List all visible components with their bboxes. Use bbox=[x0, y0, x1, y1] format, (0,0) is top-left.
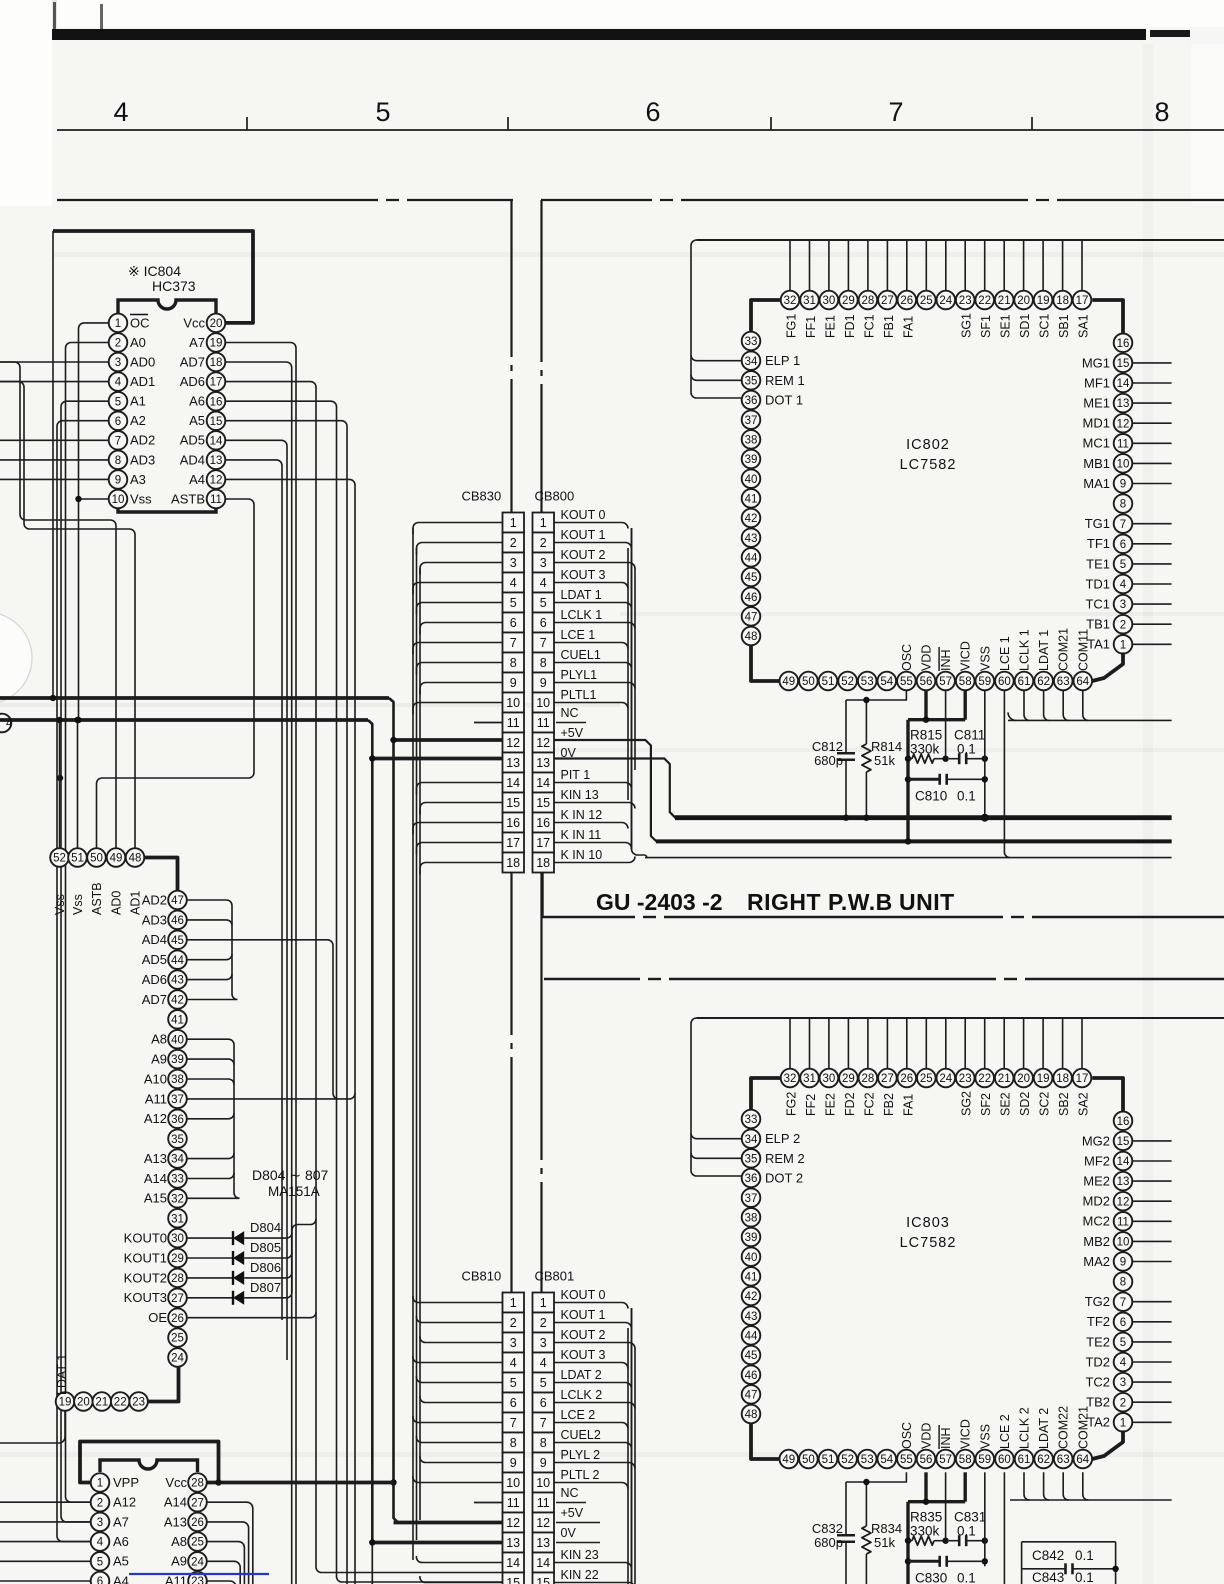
svg-text:ASTB: ASTB bbox=[171, 491, 205, 506]
svg-text:0.1: 0.1 bbox=[1075, 1548, 1094, 1563]
wire Vcc loop IC804 pin20 bbox=[53, 231, 253, 323]
svg-text:TF2: TF2 bbox=[1087, 1314, 1110, 1329]
svg-text:44: 44 bbox=[745, 553, 758, 565]
wire IC804 pin5 A1 down-left bbox=[61, 401, 109, 1522]
svg-text:K IN 10: K IN 10 bbox=[561, 848, 603, 862]
wire AD0 loop to CPU pin49 bbox=[0, 362, 116, 848]
svg-text:TD1: TD1 bbox=[1085, 576, 1110, 591]
svg-text:SF2: SF2 bbox=[979, 1093, 993, 1116]
svg-text:10: 10 bbox=[1117, 459, 1130, 471]
svg-text:14: 14 bbox=[506, 776, 520, 790]
svg-text:18: 18 bbox=[1056, 1073, 1069, 1085]
svg-text:A4: A4 bbox=[113, 1573, 129, 1584]
wire IC804 pin18 AD7 down bbox=[225, 362, 291, 1584]
connector CB830 bbox=[462, 489, 525, 873]
wire VSS bbox=[984, 690, 986, 817]
svg-text:9: 9 bbox=[540, 676, 547, 690]
svg-text:16: 16 bbox=[210, 396, 223, 408]
IC802 top pin wires to bus bbox=[790, 240, 1082, 291]
svg-text:60: 60 bbox=[998, 1454, 1011, 1466]
svg-text:AD2: AD2 bbox=[130, 433, 155, 448]
svg-text:15: 15 bbox=[1117, 358, 1130, 370]
svg-text:0.1: 0.1 bbox=[1075, 1570, 1094, 1584]
svg-text:4: 4 bbox=[6, 718, 13, 730]
svg-text:11: 11 bbox=[537, 1496, 550, 1510]
svg-text:56: 56 bbox=[920, 676, 933, 688]
svg-text:OE: OE bbox=[148, 1310, 167, 1325]
svg-text:44: 44 bbox=[745, 1331, 758, 1343]
CB801 right harness verticals to page bottom bbox=[628, 1308, 635, 1584]
wire IC804 pin1 OC to ground rail bbox=[79, 323, 109, 720]
svg-text:PLTL1: PLTL1 bbox=[561, 688, 597, 702]
wire IC804 pin14 AD5 down bbox=[225, 440, 287, 1360]
svg-text:R834: R834 bbox=[871, 1521, 902, 1536]
svg-text:12: 12 bbox=[536, 1516, 550, 1530]
svg-text:45: 45 bbox=[745, 1350, 758, 1362]
svg-text:4: 4 bbox=[510, 1356, 517, 1370]
svg-text:CB830: CB830 bbox=[462, 489, 502, 504]
svg-text:61: 61 bbox=[1018, 676, 1031, 688]
blue pen mark bbox=[129, 1573, 269, 1575]
svg-text:AD6: AD6 bbox=[142, 972, 167, 987]
svg-text:VDD: VDD bbox=[920, 1423, 934, 1449]
svg-text:KIN 23: KIN 23 bbox=[561, 1548, 599, 1562]
wire AD1 loop to CPU pin48 bbox=[0, 382, 135, 849]
svg-text:1: 1 bbox=[540, 516, 547, 530]
svg-text:Vcc: Vcc bbox=[183, 315, 205, 330]
ruler number 6 bbox=[645, 97, 660, 127]
svg-text:26: 26 bbox=[191, 1517, 204, 1529]
svg-text:50: 50 bbox=[802, 1454, 815, 1466]
svg-text:AD4: AD4 bbox=[142, 932, 167, 947]
svg-text:5: 5 bbox=[540, 1376, 547, 1390]
svg-text:7: 7 bbox=[510, 1416, 517, 1430]
svg-text:INH: INH bbox=[939, 649, 953, 671]
svg-text:PIT 1: PIT 1 bbox=[561, 768, 591, 782]
svg-text:KOUT 3: KOUT 3 bbox=[561, 568, 606, 582]
svg-text:28: 28 bbox=[862, 295, 875, 307]
svg-text:39: 39 bbox=[745, 1232, 758, 1244]
IC803 ELP REM DOT labels bbox=[765, 1131, 805, 1186]
svg-text:A7: A7 bbox=[189, 335, 205, 350]
svg-text:TF1: TF1 bbox=[1087, 536, 1110, 551]
svg-text:12: 12 bbox=[1117, 418, 1130, 430]
svg-text:12: 12 bbox=[1117, 1196, 1130, 1208]
svg-text:46: 46 bbox=[745, 1370, 758, 1382]
svg-text:9: 9 bbox=[1120, 479, 1126, 491]
IC803 right pins 16-1 bbox=[1082, 1112, 1172, 1432]
svg-text:0.1: 0.1 bbox=[957, 1570, 976, 1584]
svg-text:39: 39 bbox=[171, 1054, 184, 1066]
svg-text:1: 1 bbox=[510, 1296, 517, 1310]
svg-text:AD7: AD7 bbox=[142, 992, 167, 1007]
svg-text:OC: OC bbox=[130, 315, 150, 330]
svg-text:16: 16 bbox=[1117, 338, 1130, 350]
svg-text:AD0: AD0 bbox=[130, 354, 155, 369]
ruler tick 3 bbox=[770, 117, 772, 130]
CB800 right harness verticals bbox=[628, 528, 635, 849]
CB801 label stub wires lower harness bbox=[554, 1303, 635, 1584]
svg-text:7: 7 bbox=[1120, 1297, 1126, 1309]
svg-text:11: 11 bbox=[210, 494, 222, 506]
svg-text:MC1: MC1 bbox=[1083, 436, 1110, 451]
svg-text:0.1: 0.1 bbox=[957, 788, 976, 803]
svg-text:32: 32 bbox=[171, 1193, 184, 1205]
svg-text:60: 60 bbox=[998, 676, 1011, 688]
svg-text:33: 33 bbox=[745, 336, 758, 348]
svg-text:680p: 680p bbox=[814, 753, 843, 768]
wire diode bus up bbox=[292, 1219, 316, 1292]
wire IC804 pin4 AD1 off-page bbox=[0, 381, 109, 383]
svg-text:34: 34 bbox=[745, 1134, 758, 1146]
svg-text:ASTB: ASTB bbox=[90, 882, 104, 915]
svg-text:KOUT1: KOUT1 bbox=[124, 1250, 167, 1265]
wire 0V branch to CB801 pin13 bbox=[372, 1541, 502, 1545]
svg-text:48: 48 bbox=[129, 853, 142, 865]
ROM body top bbox=[100, 1460, 198, 1472]
svg-text:32: 32 bbox=[784, 295, 797, 307]
wire A11 row to A-bus vertical bbox=[339, 1093, 356, 1099]
svg-text:30: 30 bbox=[823, 295, 836, 307]
svg-text:AD4: AD4 bbox=[180, 452, 205, 467]
svg-text:63: 63 bbox=[1057, 1454, 1070, 1466]
svg-text:SB2: SB2 bbox=[1057, 1092, 1071, 1116]
svg-text:25: 25 bbox=[920, 295, 933, 307]
ruler number 8 bbox=[1154, 97, 1169, 127]
svg-text:IC803: IC803 bbox=[906, 1215, 950, 1231]
IC802 body corners bbox=[751, 300, 1123, 681]
svg-text:C811: C811 bbox=[954, 728, 985, 743]
svg-text:LCE 2: LCE 2 bbox=[998, 1414, 1012, 1449]
wire IC804 pin13 AD4 down bbox=[225, 460, 282, 1320]
svg-text:12: 12 bbox=[506, 736, 520, 750]
svg-text:34: 34 bbox=[171, 1154, 184, 1166]
svg-text:11: 11 bbox=[507, 1496, 520, 1510]
wire IC804 pin17 AD6 down bbox=[225, 382, 502, 1573]
svg-text:330k: 330k bbox=[910, 742, 940, 757]
svg-text:TA2: TA2 bbox=[1087, 1415, 1110, 1430]
IC804 pin 8 AD3 bbox=[109, 451, 156, 470]
svg-text:P.W.B: P.W.B bbox=[828, 889, 893, 915]
svg-text:R835: R835 bbox=[910, 1510, 942, 1525]
svg-text:30: 30 bbox=[171, 1233, 184, 1245]
CB800 pin labels bbox=[561, 508, 606, 862]
wire ELP/REM/DOT loop IC802 bbox=[691, 240, 742, 398]
wire COM bus pins 61-64 bbox=[1008, 690, 1172, 720]
sheet border top of lower unit bbox=[544, 978, 640, 980]
svg-text:3: 3 bbox=[540, 556, 547, 570]
svg-text:AD1: AD1 bbox=[129, 891, 143, 915]
svg-text:28: 28 bbox=[191, 1478, 204, 1490]
svg-text:41: 41 bbox=[745, 1272, 758, 1284]
svg-text:4: 4 bbox=[540, 576, 547, 590]
svg-text:38: 38 bbox=[745, 435, 758, 447]
svg-text:KOUT 2: KOUT 2 bbox=[561, 548, 606, 562]
svg-text:5: 5 bbox=[510, 596, 517, 610]
svg-text:29: 29 bbox=[842, 1073, 855, 1085]
svg-text:63: 63 bbox=[1057, 676, 1070, 688]
svg-text:A14: A14 bbox=[164, 1495, 187, 1510]
svg-text:57: 57 bbox=[939, 676, 952, 688]
svg-text:16: 16 bbox=[506, 816, 520, 830]
svg-text:1: 1 bbox=[97, 1478, 103, 1490]
svg-text:2: 2 bbox=[1120, 619, 1126, 631]
sheet border bottom of upper unit bbox=[543, 916, 636, 918]
svg-text:31: 31 bbox=[803, 295, 816, 307]
svg-text:15: 15 bbox=[536, 796, 550, 810]
svg-text:49: 49 bbox=[110, 853, 123, 865]
IC803 name text bbox=[900, 1215, 957, 1251]
svg-text:MA2: MA2 bbox=[1083, 1254, 1110, 1269]
svg-text:PLTL 2: PLTL 2 bbox=[561, 1468, 600, 1482]
wire CB830 to CB810 drop bbox=[510, 873, 512, 1035]
svg-text:24: 24 bbox=[939, 1073, 952, 1085]
svg-text:34: 34 bbox=[745, 356, 758, 368]
svg-text:R814: R814 bbox=[871, 739, 902, 754]
svg-text:VDD: VDD bbox=[920, 645, 934, 671]
wire A8-A15 bus bbox=[187, 1039, 240, 1198]
svg-text:13: 13 bbox=[506, 1536, 520, 1550]
svg-text:21: 21 bbox=[998, 1073, 1011, 1085]
svg-text:2: 2 bbox=[97, 1497, 103, 1509]
svg-text:23: 23 bbox=[959, 295, 972, 307]
svg-text:ELP 1: ELP 1 bbox=[765, 353, 800, 368]
svg-text:Vcc: Vcc bbox=[165, 1475, 187, 1490]
svg-text:25: 25 bbox=[191, 1537, 204, 1549]
svg-text:SE2: SE2 bbox=[999, 1092, 1013, 1116]
svg-text:24: 24 bbox=[939, 295, 952, 307]
wire VDD VICD tie bbox=[908, 1472, 965, 1584]
svg-text:22: 22 bbox=[114, 1397, 127, 1409]
svg-text:7: 7 bbox=[115, 435, 121, 447]
svg-text:MA1: MA1 bbox=[1083, 476, 1110, 491]
text D804~807 MA151A bbox=[252, 1167, 329, 1199]
svg-text:23: 23 bbox=[959, 1073, 972, 1085]
IC803 top pin labels bbox=[785, 1091, 1091, 1116]
svg-text:AD7: AD7 bbox=[180, 354, 205, 369]
svg-text:7: 7 bbox=[510, 636, 517, 650]
svg-text:A5: A5 bbox=[113, 1554, 129, 1569]
svg-text:6: 6 bbox=[1120, 1317, 1126, 1329]
IC804 pin 9 A3 bbox=[109, 470, 146, 489]
svg-text:9: 9 bbox=[540, 1456, 547, 1470]
svg-text:CUEL1: CUEL1 bbox=[561, 648, 601, 662]
svg-text:MG2: MG2 bbox=[1082, 1133, 1110, 1148]
CB801 pin labels bbox=[561, 1288, 606, 1582]
CPU bottom pins 19-23 bbox=[56, 1392, 148, 1411]
svg-text:NC: NC bbox=[561, 1486, 579, 1500]
svg-text:0.1: 0.1 bbox=[957, 1524, 976, 1539]
svg-text:+5V: +5V bbox=[561, 726, 584, 740]
svg-text:51k: 51k bbox=[874, 1535, 895, 1550]
svg-text:48: 48 bbox=[745, 631, 758, 643]
svg-text:AD3: AD3 bbox=[130, 452, 155, 467]
wire +5V rail vertical bbox=[389, 698, 398, 1523]
svg-text:6: 6 bbox=[540, 616, 547, 630]
wire CB830 pin1 drop bbox=[510, 200, 512, 357]
svg-text:CB810: CB810 bbox=[462, 1269, 502, 1284]
svg-text:6: 6 bbox=[97, 1576, 103, 1584]
svg-text:33: 33 bbox=[171, 1174, 184, 1186]
svg-text:R815: R815 bbox=[910, 728, 942, 743]
svg-text:40: 40 bbox=[745, 1252, 758, 1264]
resistor R835 330k bbox=[905, 1510, 949, 1546]
svg-text:C810: C810 bbox=[915, 788, 947, 803]
svg-text:27: 27 bbox=[191, 1497, 204, 1509]
svg-text:4: 4 bbox=[510, 576, 517, 590]
wire +5V rail horizontal bbox=[0, 696, 389, 700]
IC804 pin 17 AD6 bbox=[180, 372, 226, 391]
svg-text:10: 10 bbox=[506, 1476, 520, 1490]
svg-text:A11: A11 bbox=[145, 1091, 167, 1106]
svg-text:45: 45 bbox=[745, 572, 758, 584]
svg-text:39: 39 bbox=[745, 454, 758, 466]
svg-text:43: 43 bbox=[171, 975, 184, 987]
svg-text:7: 7 bbox=[540, 636, 547, 650]
svg-text:HC373: HC373 bbox=[152, 278, 196, 294]
svg-text:AD5: AD5 bbox=[180, 433, 205, 448]
svg-text:53: 53 bbox=[861, 676, 874, 688]
svg-text:LDAT 2: LDAT 2 bbox=[561, 1368, 602, 1382]
svg-text:18: 18 bbox=[210, 357, 223, 369]
svg-text:22: 22 bbox=[978, 295, 991, 307]
svg-text:Vss: Vss bbox=[130, 491, 152, 506]
svg-text:26: 26 bbox=[171, 1313, 184, 1325]
svg-text:A10: A10 bbox=[144, 1071, 167, 1086]
wire COM bus pins 61-64 bbox=[1010, 1472, 1172, 1500]
svg-text:8: 8 bbox=[510, 1436, 517, 1450]
svg-text:15: 15 bbox=[506, 796, 520, 810]
svg-text:ME2: ME2 bbox=[1083, 1174, 1110, 1189]
svg-text:18: 18 bbox=[536, 856, 550, 870]
ROM pins bbox=[91, 1473, 207, 1584]
svg-text:55: 55 bbox=[900, 1454, 913, 1466]
svg-text:COM11: COM11 bbox=[1076, 629, 1090, 671]
IC804 pin 1 OC bbox=[109, 314, 150, 333]
wire VSS bbox=[984, 1472, 986, 1566]
svg-text:17: 17 bbox=[506, 836, 520, 850]
wire IC804 pin3 AD0 off-page bbox=[0, 361, 109, 363]
svg-text:LCLK 1: LCLK 1 bbox=[1018, 629, 1032, 671]
svg-text:20: 20 bbox=[1017, 295, 1030, 307]
svg-text:52: 52 bbox=[841, 676, 854, 688]
svg-text:5: 5 bbox=[1120, 1337, 1126, 1349]
svg-text:REM 2: REM 2 bbox=[765, 1151, 805, 1166]
svg-text:6: 6 bbox=[540, 1396, 547, 1410]
IC804 pin 14 AD5 bbox=[180, 431, 226, 450]
wire INH bbox=[945, 1472, 947, 1540]
svg-text:19: 19 bbox=[59, 1397, 72, 1409]
IC802 top pin labels bbox=[785, 313, 1091, 338]
IC804 pin 18 AD7 bbox=[180, 353, 226, 372]
svg-text:KOUT 1: KOUT 1 bbox=[561, 528, 606, 542]
svg-text:52: 52 bbox=[53, 853, 66, 865]
svg-text:FB2: FB2 bbox=[882, 1093, 896, 1116]
svg-text:AD2: AD2 bbox=[142, 892, 167, 907]
svg-text:LDAT 1: LDAT 1 bbox=[1037, 630, 1051, 671]
svg-text:62: 62 bbox=[1037, 676, 1050, 688]
svg-text:13: 13 bbox=[1117, 398, 1130, 410]
svg-text:ME1: ME1 bbox=[1083, 396, 1110, 411]
svg-text:C830: C830 bbox=[915, 1570, 947, 1584]
svg-text:48: 48 bbox=[745, 1409, 758, 1421]
svg-text:5: 5 bbox=[97, 1556, 103, 1568]
svg-text:5: 5 bbox=[540, 596, 547, 610]
svg-text:3: 3 bbox=[540, 1336, 547, 1350]
svg-text:MB1: MB1 bbox=[1083, 456, 1110, 471]
svg-text:7: 7 bbox=[540, 1416, 547, 1430]
svg-text:SC2: SC2 bbox=[1038, 1092, 1052, 1116]
svg-text:58: 58 bbox=[959, 676, 972, 688]
IC803 body corners bbox=[751, 1078, 1123, 1459]
svg-text:SF1: SF1 bbox=[979, 315, 993, 338]
svg-text:21: 21 bbox=[95, 1397, 108, 1409]
svg-text:12: 12 bbox=[210, 475, 223, 487]
svg-text:31: 31 bbox=[171, 1213, 184, 1225]
svg-text:C812: C812 bbox=[812, 739, 843, 754]
svg-text:47: 47 bbox=[745, 612, 758, 624]
svg-text:C842: C842 bbox=[1032, 1548, 1064, 1563]
svg-text:4: 4 bbox=[1120, 1357, 1127, 1369]
capacitor C812 680p bbox=[812, 700, 855, 818]
svg-text:VSS: VSS bbox=[978, 646, 992, 671]
svg-text:LDAT 1: LDAT 1 bbox=[561, 588, 602, 602]
svg-text:TC2: TC2 bbox=[1085, 1375, 1110, 1390]
svg-text:64: 64 bbox=[1076, 1454, 1089, 1466]
wire INH bbox=[945, 690, 947, 758]
svg-text:KOUT3: KOUT3 bbox=[124, 1290, 167, 1305]
svg-text:46: 46 bbox=[745, 592, 758, 604]
svg-text:TG1: TG1 bbox=[1085, 516, 1110, 531]
svg-text:COM21: COM21 bbox=[1057, 628, 1071, 671]
svg-text:62: 62 bbox=[1037, 1454, 1050, 1466]
svg-text:31: 31 bbox=[803, 1073, 816, 1085]
svg-text:MB2: MB2 bbox=[1083, 1234, 1110, 1249]
title GU-2403-2 RIGHT P.W.B UNIT bbox=[596, 889, 955, 915]
svg-text:12: 12 bbox=[536, 736, 550, 750]
svg-text:25: 25 bbox=[171, 1333, 184, 1345]
svg-text:13: 13 bbox=[1117, 1176, 1130, 1188]
wire pin19 exit left bbox=[0, 1411, 65, 1443]
wire +5V from CB800 pin12 to right bbox=[554, 740, 1172, 841]
svg-text:CB801: CB801 bbox=[535, 1269, 575, 1284]
capacitor C810 0.1 bbox=[905, 774, 988, 804]
IC802 bottom pin labels bbox=[900, 628, 1090, 671]
svg-text:19: 19 bbox=[210, 338, 223, 350]
svg-text:2: 2 bbox=[510, 1316, 517, 1330]
wire OSC node C812 bbox=[846, 690, 906, 700]
svg-text:49: 49 bbox=[782, 676, 795, 688]
wire KOUT0 top bus left to CB830 bbox=[57, 199, 378, 201]
svg-text:14: 14 bbox=[210, 435, 223, 447]
IC804 pin 16 A6 bbox=[189, 392, 225, 411]
svg-text:8: 8 bbox=[1154, 97, 1169, 127]
svg-text:NC: NC bbox=[561, 706, 579, 720]
svg-text:36: 36 bbox=[745, 1173, 758, 1185]
wire ELP/REM/DOT loop IC803 bbox=[691, 1018, 742, 1176]
wire IC804 pin7 AD2 off-page bbox=[0, 439, 109, 441]
svg-text:6: 6 bbox=[115, 416, 121, 428]
wire harness exit right LCE1 line bbox=[632, 849, 1172, 858]
svg-text:10: 10 bbox=[536, 1476, 550, 1490]
svg-text:0.1: 0.1 bbox=[957, 742, 976, 757]
wire IC804 pin11 ASTB down bbox=[97, 499, 255, 848]
svg-text:42: 42 bbox=[745, 1291, 758, 1303]
svg-text:7: 7 bbox=[888, 97, 903, 127]
capacitor C811 0.1 bbox=[946, 728, 988, 765]
svg-text:330k: 330k bbox=[910, 1524, 940, 1539]
svg-text:11: 11 bbox=[1117, 438, 1129, 450]
